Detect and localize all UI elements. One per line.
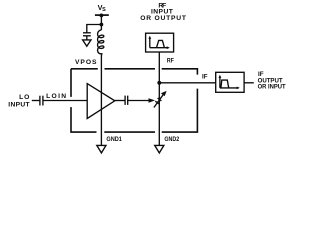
wire amplifier output to cap	[115, 100, 125, 102]
ground GND2	[155, 145, 164, 153]
label RF input or output	[140, 2, 187, 22]
RF bandpass filter icon axes	[150, 37, 168, 48]
ground decoupling	[83, 40, 91, 46]
wire LO input to coupling cap	[32, 100, 40, 102]
supply rail bar VS	[95, 14, 109, 16]
svg-text:VPOS: VPOS	[75, 59, 97, 66]
label IF output or input	[258, 71, 287, 91]
svg-text:LOIN: LOIN	[46, 93, 66, 100]
junction dot decoupling branch	[100, 23, 104, 27]
junction node RF IF dot	[157, 81, 161, 85]
svg-text:OR INPUT: OR INPUT	[258, 84, 287, 91]
wire cap through LOIN pin to amplifier	[43, 100, 87, 102]
svg-text:IF: IF	[202, 74, 208, 81]
capacitor C3 internal coupling plates	[125, 96, 128, 105]
capacitor C1 decoupling plates	[83, 33, 91, 36]
svg-text:RF: RF	[167, 58, 174, 65]
label IF pin	[202, 74, 208, 81]
svg-text:GND1: GND1	[106, 136, 122, 143]
wire RF node vertical through box to GND2 ground	[158, 52, 160, 145]
IC box outline with pin gaps	[71, 69, 197, 132]
RF filter bandpass response curve	[157, 40, 165, 47]
mixer variable-resistance diagonal arrow shaft	[154, 94, 164, 108]
IF lowpass filter icon axes	[220, 76, 238, 88]
label GND2	[164, 136, 179, 143]
wire IF filter to output label	[244, 82, 254, 84]
IF filter lowpass response curve	[221, 80, 229, 88]
RF filter icon axis arrows	[148, 36, 169, 49]
mixer arrowhead	[161, 91, 167, 96]
wire capacitor to ground	[86, 36, 88, 40]
label RF pin	[167, 58, 174, 65]
capacitor C2 LO coupling plates	[40, 96, 43, 106]
label GND1	[106, 136, 122, 143]
junction dot at VS bar	[100, 14, 104, 18]
svg-text:INPUT: INPUT	[8, 101, 30, 108]
ground GND1	[97, 145, 106, 153]
label VPOS	[75, 59, 97, 66]
wire IF node to IF filter	[159, 82, 215, 84]
wire inductor through VPOS pin and amp to GND1 ground	[100, 56, 102, 146]
IF filter icon axis arrows	[219, 75, 240, 90]
inductor L1 VPOS choke	[98, 30, 104, 56]
mixer variable slash marks	[155, 98, 161, 104]
label INPUT	[8, 101, 30, 108]
op-amp LO amplifier triangle	[87, 84, 115, 119]
node VS label	[98, 3, 107, 13]
label LO	[19, 94, 29, 101]
RF filter box	[146, 33, 174, 52]
arrow LO drive into mixer	[149, 98, 156, 103]
svg-text:GND2: GND2	[164, 136, 179, 143]
wire VS bar down to inductor	[100, 15, 102, 30]
svg-text:LO: LO	[19, 94, 29, 101]
wire cap to mixer drive arrow	[128, 100, 149, 102]
svg-text:OR OUTPUT: OR OUTPUT	[140, 15, 187, 22]
label LOIN	[46, 93, 66, 100]
wire junction to decoupling capacitor	[87, 25, 102, 33]
svg-text:S: S	[102, 7, 106, 13]
IF filter box	[216, 72, 244, 92]
